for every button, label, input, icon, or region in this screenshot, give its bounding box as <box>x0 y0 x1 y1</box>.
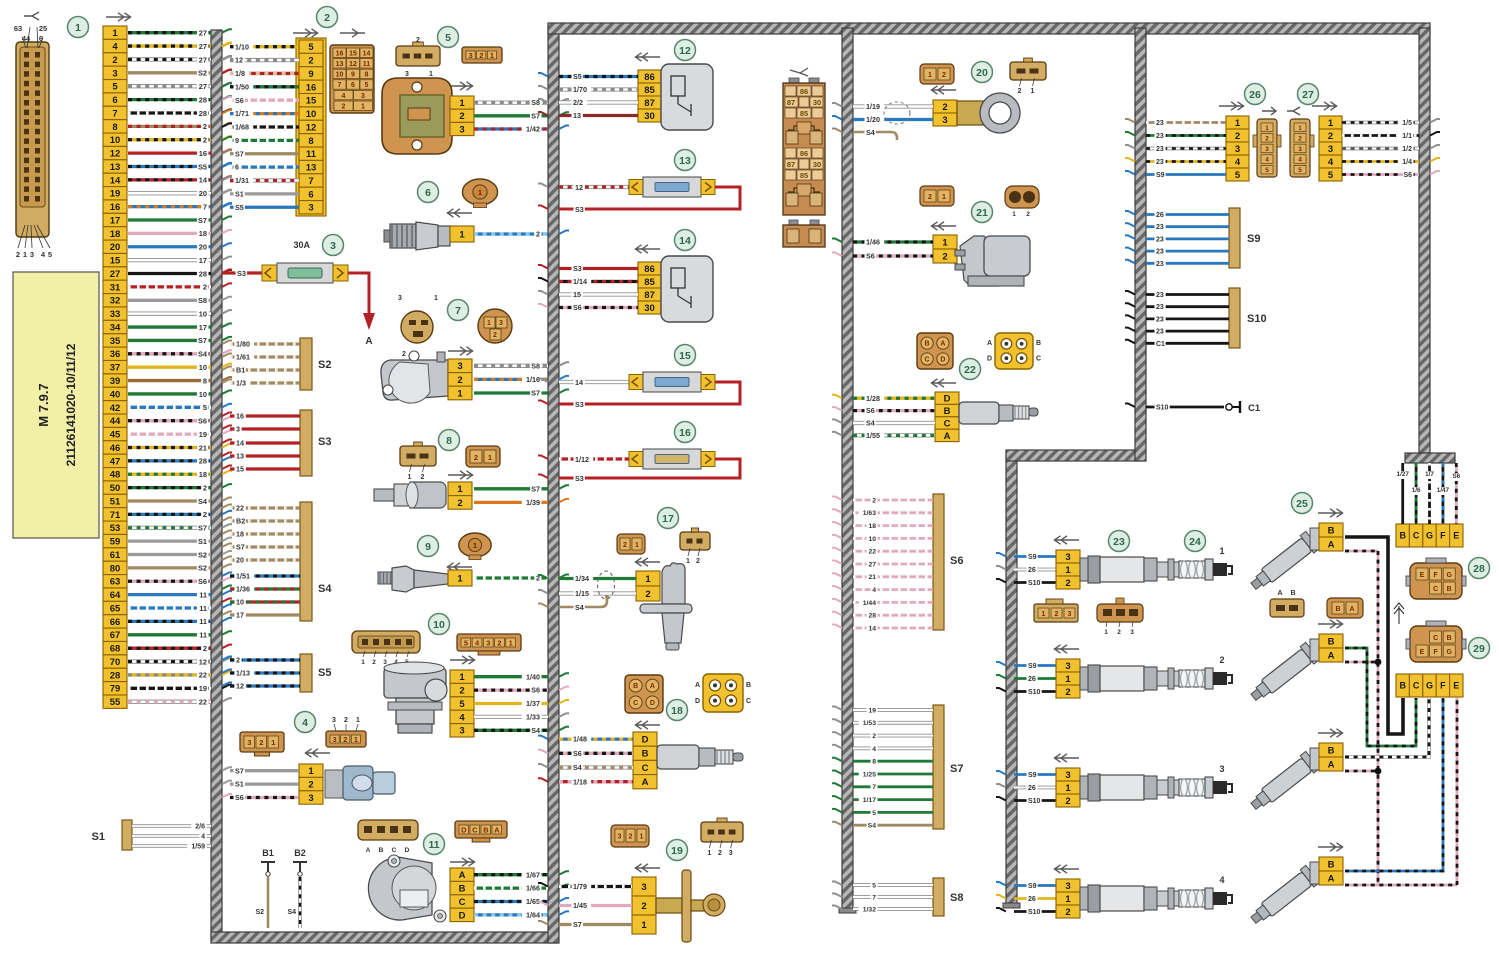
callout 6 <box>418 182 439 203</box>
svg-text:1/50: 1/50 <box>235 82 249 91</box>
svg-text:C: C <box>459 897 466 908</box>
component 8 wires <box>474 484 569 508</box>
svg-text:6: 6 <box>308 189 313 200</box>
svg-text:C: C <box>392 847 397 854</box>
svg-text:B: B <box>1036 340 1041 347</box>
svg-text:3: 3 <box>1065 552 1070 563</box>
svg-text:1: 1 <box>408 474 412 481</box>
connector icon component 6 <box>462 179 497 208</box>
svg-text:5: 5 <box>459 699 465 710</box>
svg-text:18: 18 <box>199 470 207 479</box>
svg-text:2: 2 <box>696 558 700 565</box>
svg-text:B: B <box>1447 635 1452 642</box>
svg-text:15: 15 <box>110 256 121 267</box>
svg-text:B: B <box>1399 681 1406 691</box>
svg-text:5: 5 <box>445 32 451 44</box>
svg-text:23: 23 <box>1113 536 1125 548</box>
svg-text:16: 16 <box>199 149 207 158</box>
svg-text:S3: S3 <box>575 400 584 409</box>
component 4 wires <box>222 766 299 803</box>
svg-text:1/15: 1/15 <box>575 589 589 598</box>
svg-text:3: 3 <box>30 250 34 259</box>
ECU connector pin column 1 <box>103 26 127 708</box>
svg-text:S1: S1 <box>235 780 244 789</box>
svg-text:B: B <box>1328 636 1335 647</box>
svg-text:28: 28 <box>1473 563 1485 575</box>
svg-text:1: 1 <box>487 320 491 327</box>
component 4 speed sensor <box>299 764 395 804</box>
svg-text:4: 4 <box>342 93 346 100</box>
svg-text:C: C <box>1433 635 1438 642</box>
callout 28 <box>1469 558 1490 579</box>
svg-text:A: A <box>987 340 992 347</box>
svg-text:2: 2 <box>343 735 347 744</box>
svg-text:3: 3 <box>1219 764 1224 774</box>
svg-text:S1: S1 <box>198 537 207 546</box>
svg-text:3: 3 <box>330 240 336 252</box>
svg-text:E: E <box>1453 531 1459 541</box>
component 18 pins <box>633 732 657 789</box>
svg-text:1: 1 <box>1065 674 1071 685</box>
svg-text:8: 8 <box>203 376 207 385</box>
svg-text:1/28: 1/28 <box>866 394 880 403</box>
ECU block connector X1 <box>14 24 52 259</box>
svg-text:2: 2 <box>1065 796 1070 807</box>
svg-text:44: 44 <box>110 416 121 427</box>
svg-text:15: 15 <box>236 465 244 474</box>
svg-text:1/65: 1/65 <box>526 897 540 906</box>
svg-text:23: 23 <box>1156 159 1164 166</box>
svg-text:85: 85 <box>800 171 808 180</box>
svg-text:1/48: 1/48 <box>573 735 587 744</box>
svg-text:S7: S7 <box>573 920 582 929</box>
component 19 throttle body <box>656 870 725 942</box>
svg-text:5: 5 <box>1298 167 1302 174</box>
connector 2 pin column <box>296 38 326 216</box>
svg-text:S10: S10 <box>1247 313 1267 325</box>
svg-text:11: 11 <box>428 839 439 851</box>
svg-text:1: 1 <box>942 237 948 248</box>
svg-text:9: 9 <box>351 72 355 79</box>
right border bottom cap <box>1405 453 1455 463</box>
svg-text:19: 19 <box>110 189 121 200</box>
component 20 wires <box>832 102 933 140</box>
svg-text:S5: S5 <box>235 203 244 212</box>
splice S5 <box>222 654 331 692</box>
svg-text:1/40: 1/40 <box>526 672 540 681</box>
svg-text:B: B <box>944 406 951 417</box>
svg-text:30: 30 <box>813 98 821 107</box>
svg-text:18: 18 <box>868 523 876 530</box>
callout 26 <box>1245 84 1266 105</box>
svg-text:1: 1 <box>361 103 365 110</box>
svg-text:F: F <box>1440 681 1446 691</box>
svg-text:B1: B1 <box>236 366 245 375</box>
svg-text:2: 2 <box>942 72 946 79</box>
connector 2 face view <box>330 45 374 113</box>
svg-text:3: 3 <box>1130 629 1134 636</box>
svg-text:A: A <box>650 683 655 690</box>
view arrow component 11 <box>450 858 475 866</box>
callout 5 <box>438 27 459 48</box>
svg-text:3: 3 <box>729 850 733 857</box>
svg-text:66: 66 <box>110 617 121 628</box>
svg-text:S5: S5 <box>318 667 331 679</box>
view arrow component 7 <box>448 347 473 355</box>
svg-text:S6: S6 <box>235 793 244 802</box>
svg-text:S4: S4 <box>531 726 540 735</box>
svg-text:A: A <box>695 682 700 689</box>
svg-text:1: 1 <box>686 558 690 565</box>
callout 19 <box>667 840 688 861</box>
svg-text:D: D <box>940 357 945 364</box>
top border <box>548 23 1430 34</box>
svg-text:2: 2 <box>536 230 540 239</box>
component 7 TPS body <box>381 351 448 403</box>
svg-text:11: 11 <box>306 149 317 160</box>
svg-text:1: 1 <box>354 735 358 744</box>
svg-text:S4: S4 <box>198 350 208 359</box>
branch symbol top-left <box>24 12 39 20</box>
view arrow component 20 <box>931 86 956 94</box>
spark plug 4 <box>996 882 1056 917</box>
svg-text:14: 14 <box>575 378 583 387</box>
svg-text:S6: S6 <box>866 252 875 261</box>
injector 1 signal wire <box>1345 537 1403 734</box>
svg-text:7: 7 <box>203 202 207 211</box>
view arrow component 21 <box>931 222 956 230</box>
svg-text:S2: S2 <box>318 359 331 371</box>
component 22 oxygen sensor body <box>959 402 1038 424</box>
svg-text:55: 55 <box>110 697 121 708</box>
svg-text:2: 2 <box>497 638 501 647</box>
svg-text:8: 8 <box>308 136 313 147</box>
callout 10 <box>429 614 450 635</box>
probe B1 <box>255 848 275 928</box>
svg-text:18: 18 <box>199 229 207 238</box>
svg-text:27: 27 <box>199 42 207 51</box>
coil connector icons <box>1034 598 1143 636</box>
view arrows 26/27 <box>1219 102 1337 115</box>
svg-text:1/7: 1/7 <box>1425 471 1434 478</box>
svg-text:7: 7 <box>308 176 313 187</box>
svg-text:21: 21 <box>199 443 207 452</box>
callout 18 <box>667 700 688 721</box>
component 19 wires <box>538 882 632 930</box>
svg-text:1/64: 1/64 <box>526 911 540 920</box>
svg-text:28: 28 <box>199 269 207 278</box>
svg-text:1: 1 <box>478 188 482 197</box>
svg-text:14: 14 <box>868 625 876 632</box>
svg-text:1/70: 1/70 <box>573 85 587 94</box>
svg-text:10: 10 <box>306 109 317 120</box>
svg-text:5: 5 <box>872 882 876 889</box>
svg-text:30A: 30A <box>293 240 310 250</box>
svg-text:A: A <box>1328 759 1335 770</box>
svg-text:9: 9 <box>425 541 431 553</box>
svg-text:8: 8 <box>872 759 876 766</box>
svg-text:2: 2 <box>942 251 947 262</box>
svg-text:13: 13 <box>573 111 581 120</box>
fuse 16 <box>538 449 740 484</box>
svg-text:1: 1 <box>457 573 463 584</box>
svg-text:71: 71 <box>110 510 121 521</box>
svg-text:1/32: 1/32 <box>863 906 876 913</box>
svg-text:1/25: 1/25 <box>863 771 876 778</box>
component 17 pins <box>636 571 660 601</box>
svg-text:2: 2 <box>479 51 483 60</box>
svg-text:27: 27 <box>868 561 876 568</box>
svg-text:2: 2 <box>324 12 330 24</box>
wire harness trunk (left) <box>211 30 222 938</box>
svg-text:1: 1 <box>473 541 477 550</box>
svg-text:1: 1 <box>1328 118 1334 129</box>
svg-text:3: 3 <box>308 793 313 804</box>
svg-text:13: 13 <box>306 163 317 174</box>
connector 26 body icon <box>1253 119 1281 177</box>
svg-text:D: D <box>459 910 466 921</box>
svg-text:S8: S8 <box>950 892 963 904</box>
svg-text:B2: B2 <box>294 848 306 858</box>
callout 7 <box>448 300 469 321</box>
svg-text:28: 28 <box>199 95 207 104</box>
spark plug 2 <box>996 662 1056 697</box>
svg-text:2: 2 <box>474 453 478 462</box>
svg-text:8: 8 <box>365 72 369 79</box>
connector 29 <box>1406 621 1466 662</box>
svg-text:23: 23 <box>1156 133 1164 140</box>
svg-text:S5: S5 <box>198 162 207 171</box>
svg-text:2: 2 <box>457 375 462 386</box>
component 10 wires <box>474 672 569 736</box>
svg-text:19: 19 <box>199 430 207 439</box>
svg-text:27: 27 <box>110 269 121 280</box>
svg-text:17: 17 <box>236 611 244 620</box>
right box divider vertical <box>1135 28 1146 461</box>
svg-text:48: 48 <box>110 470 121 481</box>
svg-text:1/18: 1/18 <box>573 777 587 786</box>
svg-text:1/51: 1/51 <box>236 572 250 581</box>
component 11 pins <box>450 868 474 922</box>
svg-text:2: 2 <box>1265 135 1269 142</box>
svg-text:17: 17 <box>199 323 207 332</box>
svg-text:2: 2 <box>1298 135 1302 142</box>
svg-text:3: 3 <box>469 51 473 60</box>
svg-text:4: 4 <box>1328 157 1334 168</box>
view arrow component 4 <box>305 749 330 757</box>
svg-text:4: 4 <box>1235 157 1241 168</box>
component 10 pins <box>450 670 474 737</box>
svg-text:B1: B1 <box>262 848 274 858</box>
svg-text:13: 13 <box>110 162 121 173</box>
svg-text:1: 1 <box>1065 783 1071 794</box>
svg-text:64: 64 <box>110 590 121 601</box>
connector icons component 17 <box>617 528 710 565</box>
svg-text:68: 68 <box>110 644 121 655</box>
svg-text:23: 23 <box>1156 329 1164 336</box>
svg-text:3: 3 <box>405 71 409 78</box>
svg-text:2: 2 <box>416 37 420 44</box>
svg-text:1: 1 <box>23 250 27 259</box>
svg-text:S6: S6 <box>198 577 207 586</box>
svg-text:12: 12 <box>349 61 357 68</box>
svg-text:B: B <box>1399 531 1406 541</box>
svg-text:2: 2 <box>1055 611 1059 618</box>
svg-text:39: 39 <box>110 376 121 387</box>
svg-text:C1: C1 <box>1156 341 1165 348</box>
callout 12 <box>675 40 696 61</box>
relay 12 pins <box>638 70 661 122</box>
svg-text:2: 2 <box>1117 629 1121 636</box>
view arrow relay 14 <box>635 245 660 253</box>
component 10 MAF body <box>384 662 447 733</box>
svg-text:19: 19 <box>671 845 683 857</box>
svg-text:85: 85 <box>644 277 655 288</box>
splice S3 <box>222 410 331 476</box>
svg-text:26: 26 <box>1028 676 1036 683</box>
middle box right border <box>839 28 856 913</box>
callout 15 <box>675 345 696 366</box>
svg-text:22: 22 <box>964 364 976 376</box>
svg-text:1/79: 1/79 <box>573 882 587 891</box>
svg-text:3: 3 <box>1065 881 1070 892</box>
svg-text:S9: S9 <box>1028 883 1037 890</box>
callout 14 <box>675 230 696 251</box>
svg-text:S4: S4 <box>318 583 332 595</box>
svg-text:B: B <box>1328 859 1335 870</box>
svg-text:5: 5 <box>1235 170 1241 181</box>
svg-text:26: 26 <box>1028 896 1036 903</box>
svg-text:32: 32 <box>110 296 121 307</box>
svg-text:F: F <box>1440 531 1446 541</box>
svg-text:A: A <box>944 431 951 442</box>
svg-text:B: B <box>379 847 384 854</box>
svg-text:3: 3 <box>1068 611 1072 618</box>
callout 11 <box>424 834 445 855</box>
svg-text:C: C <box>472 825 478 834</box>
svg-text:19: 19 <box>868 707 876 714</box>
svg-text:2: 2 <box>645 589 650 600</box>
svg-text:10: 10 <box>110 135 121 146</box>
relay 14 body <box>661 256 713 322</box>
svg-text:1: 1 <box>271 738 275 747</box>
svg-text:1/59: 1/59 <box>191 843 205 850</box>
callout 20 <box>972 62 993 83</box>
svg-text:S3: S3 <box>318 436 331 448</box>
svg-text:67: 67 <box>110 630 121 641</box>
callout 8 <box>439 430 460 451</box>
svg-text:1/17: 1/17 <box>863 797 876 804</box>
svg-text:9: 9 <box>308 69 313 80</box>
svg-text:5: 5 <box>365 82 369 89</box>
svg-text:S7: S7 <box>950 763 963 775</box>
svg-text:S10: S10 <box>1156 405 1169 412</box>
svg-text:7: 7 <box>338 82 342 89</box>
svg-text:5: 5 <box>48 250 52 259</box>
svg-text:2: 2 <box>1065 907 1070 918</box>
svg-text:1: 1 <box>641 920 647 931</box>
svg-text:23: 23 <box>1156 261 1164 268</box>
svg-text:16: 16 <box>336 50 344 57</box>
svg-text:28: 28 <box>199 109 207 118</box>
view arrow above connector 1 <box>106 13 131 21</box>
svg-text:4: 4 <box>201 833 205 840</box>
svg-text:C1: C1 <box>1248 403 1261 414</box>
svg-text:14: 14 <box>679 235 691 247</box>
callout 1 <box>68 17 89 38</box>
splice S6 <box>832 494 963 633</box>
callout 17 <box>658 508 679 529</box>
relay 12 body <box>661 64 713 130</box>
component 5 pins <box>450 96 474 136</box>
ignition module connector top <box>1396 524 1463 547</box>
svg-text:86: 86 <box>800 149 808 158</box>
svg-text:1/8: 1/8 <box>235 69 245 78</box>
svg-text:12: 12 <box>575 183 583 192</box>
svg-text:1: 1 <box>308 766 314 777</box>
svg-text:S7: S7 <box>235 766 244 775</box>
svg-text:1: 1 <box>429 71 433 78</box>
relay 14 wires <box>538 264 638 313</box>
svg-text:22: 22 <box>868 549 876 556</box>
svg-text:S4: S4 <box>573 763 582 772</box>
svg-text:1: 1 <box>1298 125 1302 132</box>
connector icons component 7 <box>398 295 512 358</box>
component 7 pins <box>448 359 472 400</box>
svg-text:24: 24 <box>1189 536 1201 548</box>
svg-text:S6: S6 <box>235 96 244 105</box>
component 6 pin <box>450 226 474 242</box>
component 8 pins <box>448 482 472 509</box>
right box inner border horizontal <box>1006 450 1141 461</box>
svg-text:25: 25 <box>1296 498 1308 510</box>
svg-text:2/6: 2/6 <box>195 823 205 830</box>
svg-text:3: 3 <box>618 834 622 841</box>
svg-text:1/42: 1/42 <box>526 125 540 134</box>
svg-text:45: 45 <box>110 430 121 441</box>
svg-text:1: 1 <box>1265 125 1269 132</box>
svg-text:15: 15 <box>573 290 581 299</box>
svg-text:1: 1 <box>1219 546 1224 556</box>
callout 3 <box>293 235 343 256</box>
svg-text:1/47: 1/47 <box>1437 487 1450 494</box>
svg-text:1/10: 1/10 <box>235 42 249 51</box>
svg-text:S4: S4 <box>866 419 875 428</box>
svg-text:2: 2 <box>308 55 313 66</box>
svg-text:63: 63 <box>14 24 22 33</box>
injector supply bus (pink) <box>1345 551 1457 885</box>
svg-text:S6: S6 <box>531 686 540 695</box>
ECU label M 7.9.7 <box>13 272 99 538</box>
svg-text:3: 3 <box>499 320 503 327</box>
svg-text:M 7.9.7: M 7.9.7 <box>36 383 51 426</box>
svg-text:C: C <box>746 698 751 705</box>
svg-text:1/2: 1/2 <box>1402 146 1412 153</box>
splice S9 <box>1125 208 1260 269</box>
svg-text:10: 10 <box>199 363 207 372</box>
svg-text:1: 1 <box>488 453 492 462</box>
svg-text:27: 27 <box>1302 89 1314 101</box>
svg-text:S7: S7 <box>236 543 245 552</box>
svg-text:1: 1 <box>928 72 932 79</box>
svg-text:2: 2 <box>203 283 207 292</box>
svg-text:1: 1 <box>457 388 463 399</box>
svg-text:1/5: 1/5 <box>1402 120 1412 127</box>
svg-text:1: 1 <box>112 28 118 39</box>
injector 3 signal wire <box>1345 698 1429 757</box>
svg-text:S10: S10 <box>1028 909 1041 916</box>
svg-text:2: 2 <box>372 659 376 666</box>
